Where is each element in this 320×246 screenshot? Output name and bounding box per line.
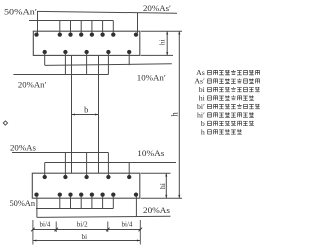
svg-text:20%An′: 20%An′ [18, 79, 47, 89]
stray diamond mark at left margin [3, 121, 7, 125]
extension line at bottom-flange bottom right [141, 197, 182, 199]
svg-text:bi: bi [82, 233, 88, 241]
svg-text:bi/2: bi/2 [77, 220, 88, 228]
dimension h line (overall height) [178, 31, 180, 198]
dimension hi' line (top slab thickness) [166, 31, 168, 55]
svg-text:20%As: 20%As [10, 143, 37, 153]
svg-text:bi/4: bi/4 [122, 220, 133, 228]
svg-text:20%As′: 20%As′ [143, 3, 171, 13]
rebar row 4 (bottom flange lower layer, 8 bars) [34, 192, 38, 196]
svg-text:10%As: 10%As [137, 148, 165, 158]
svg-text:h: h [201, 127, 205, 136]
leader line for 10%As (row3 outer bars) [45, 162, 176, 164]
dimension line bi (total width) [33, 240, 140, 242]
extension line at top-flange bottom right [141, 54, 173, 56]
leader line for 10%An' (row2 outer bars) [45, 64, 172, 66]
rebar row 2 (top flange lower layer, 5 bars) [43, 50, 47, 54]
box-beam web left edge [71, 55, 73, 173]
leader comb for 50%An' (middle six top bars) [29, 20, 113, 22]
bottom dimension extension lines row1 [32, 220, 34, 245]
rebar row 1 (top flange upper layer, 8 bars) [34, 32, 38, 36]
svg-text:hi: hi [157, 39, 166, 45]
dimension line bi/4 bi/2 bi/4 [33, 229, 140, 231]
leader comb for 50%An (middle six bottom bars) [36, 208, 113, 210]
box-beam bottom flange outline [32, 173, 140, 198]
svg-text:b: b [84, 105, 88, 115]
svg-text:h: h [169, 112, 179, 117]
leader line for 20%As' (outer top corner bars) [37, 11, 177, 13]
svg-text:50%An: 50%An [10, 198, 36, 208]
box-beam top flange outline [33, 31, 140, 55]
svg-text:hi: hi [158, 182, 167, 189]
extension line at flange top right [141, 30, 182, 32]
leader line for 20%As left (row3 middle bars) [12, 152, 108, 154]
svg-text:20%As: 20%As [143, 205, 171, 215]
rebar row 3 (bottom flange upper layer, 5 bars) [43, 175, 47, 179]
svg-text:50%An′: 50%An′ [4, 7, 37, 17]
leader line for 20%An' (row2 middle bars) [13, 74, 108, 76]
svg-text:10%An′: 10%An′ [137, 72, 166, 82]
extension line at bottom-flange top right [141, 172, 171, 174]
leader line for 20%As bottom (outer bottom corner bars) [37, 216, 171, 217]
svg-text:bi/4: bi/4 [40, 220, 51, 228]
dimension hi line (bottom slab thickness) [165, 173, 167, 198]
dimension b line with arrows (web width) [72, 114, 99, 116]
box-beam web right edge [98, 55, 100, 173]
